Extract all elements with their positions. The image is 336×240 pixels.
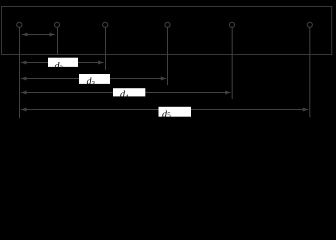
dimension d1 arrow (element1-element2) [22, 33, 55, 37]
svg-text:2: 2 [60, 65, 64, 73]
sensor element 4 [165, 22, 170, 27]
sensor element 3 [103, 22, 108, 27]
sensor element 6 [307, 22, 312, 27]
extension line from element 4 [167, 28, 169, 86]
enclosure rectangle [2, 7, 332, 55]
label box d5 [159, 107, 192, 117]
extension line from element 3 [105, 28, 107, 71]
dimension d2 arrow (element1-element3) [21, 61, 104, 65]
svg-text:5: 5 [167, 111, 171, 119]
svg-text:4: 4 [125, 93, 129, 101]
extension line from element 6 [309, 28, 311, 118]
extension line from element 5 [231, 28, 233, 100]
sensor element 5 [229, 22, 234, 27]
label box d4 [113, 88, 145, 96]
svg-text:3: 3 [92, 80, 96, 88]
dimension d5 arrow (element1-element6) [21, 108, 308, 112]
label box d3 [79, 74, 110, 84]
dimension d3 arrow (element1-element4) [21, 77, 166, 81]
sensor element 2 [54, 22, 59, 27]
sensor element 1 [17, 22, 22, 27]
dimension d4 arrow (element1-element5) [21, 91, 231, 95]
label box d2 [48, 58, 78, 67]
extension line from element 2 [57, 28, 59, 56]
extension line from element 1 [19, 28, 21, 119]
